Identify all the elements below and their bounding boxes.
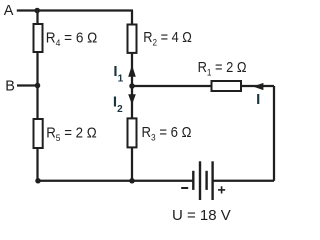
junction dot middle node (129, 83, 135, 89)
wire bottom right of battery (213, 180, 275, 182)
svg-text:B: B (5, 78, 15, 94)
battery plate long (199, 161, 201, 200)
resistor R5 (34, 119, 43, 148)
svg-text:R5 = 2 Ω: R5 = 2 Ω (46, 125, 96, 145)
current arrow I1 (up) (128, 65, 136, 77)
resistor R4 (34, 24, 43, 52)
junction dot at A (34, 8, 40, 14)
svg-text:I: I (256, 91, 260, 108)
battery plate short (205, 171, 207, 190)
battery minus sign (181, 187, 188, 189)
svg-text:A: A (4, 3, 14, 19)
resistor R3 (128, 118, 137, 147)
junction dot at B (35, 83, 41, 89)
current arrow I (left) (253, 83, 264, 90)
junction dot bottom middle (129, 178, 135, 184)
svg-text:U = 18 V: U = 18 V (172, 207, 231, 224)
battery plus sign (218, 186, 225, 193)
svg-text:R4 = 6 Ω: R4 = 6 Ω (46, 29, 98, 49)
battery plate long (211, 161, 213, 200)
wire middle horizontal to R1 (132, 85, 274, 87)
battery plate short (neg, left) (192, 171, 194, 190)
wire right vertical (273, 86, 275, 181)
junction dot bottom left (35, 178, 41, 184)
svg-text:R1 = 2 Ω: R1 = 2 Ω (198, 59, 247, 79)
svg-text:R3 = 6 Ω: R3 = 6 Ω (142, 124, 192, 144)
resistor R1 (212, 81, 242, 91)
wire bottom left of battery (37, 180, 194, 182)
wire middle vertical (131, 11, 133, 181)
wire B lead (17, 84, 38, 86)
svg-text:R2 = 4 Ω: R2 = 4 Ω (143, 29, 192, 49)
wire left vertical (36, 11, 38, 181)
wire top (A to R2 branch) (17, 9, 133, 11)
resistor R2 (128, 25, 137, 53)
current arrow I2 (down) (128, 94, 136, 105)
